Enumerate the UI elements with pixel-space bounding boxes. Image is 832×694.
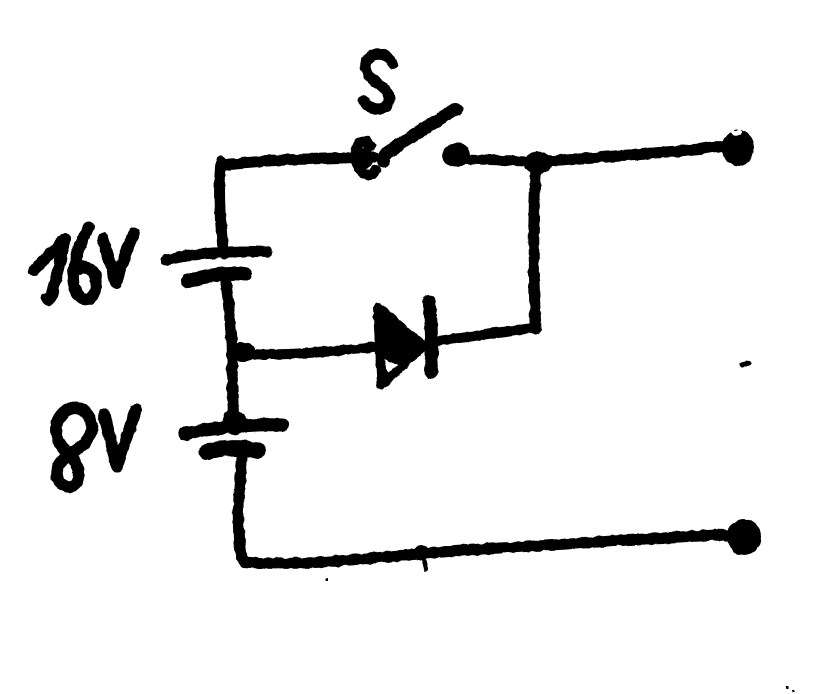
diode D1 cathode bar [429,301,432,372]
terminal bottom right [727,519,761,555]
label S [363,54,393,110]
wire V1 negative to node A [226,283,232,352]
battery V1 16V top plate [166,251,267,260]
label 8V letter V [104,410,136,466]
wire left vertical [220,162,224,254]
junction dot bottom wire [414,545,430,559]
battery V2 8V top plate [185,425,282,434]
switch S left contact hook [356,142,376,175]
battery V1 16V bottom plate [188,273,245,281]
wire node B to top terminal [546,147,724,161]
diode D1 white notch [384,359,398,372]
stray specks bottom right [786,686,789,689]
switch S right contact dot [442,143,470,167]
terminal top right [722,130,754,166]
wire switch dot to node B [466,159,540,162]
wire top left horizontal [222,157,374,165]
label 8V digit 8 [56,408,92,487]
wire right vertical branch [534,168,536,329]
battery V2 8V bottom plate [207,448,258,452]
node A junction [230,342,256,362]
wire diode cathode to right branch [437,328,534,341]
switch S blade [384,109,456,161]
battery V2 8V crossing blob [222,409,246,435]
wire V2 negative down to corner [238,458,244,561]
wire bottom horizontal [244,535,728,563]
node B junction [524,152,552,174]
label 16V digit 6 [73,227,96,299]
wire node A to V2 [232,352,234,428]
label 16V letter V [103,234,134,283]
stray mark right middle [742,363,749,365]
label 16V digit 1 [34,241,63,270]
diode D1 triangle [378,308,423,384]
wire node A to diode anode [236,347,377,354]
